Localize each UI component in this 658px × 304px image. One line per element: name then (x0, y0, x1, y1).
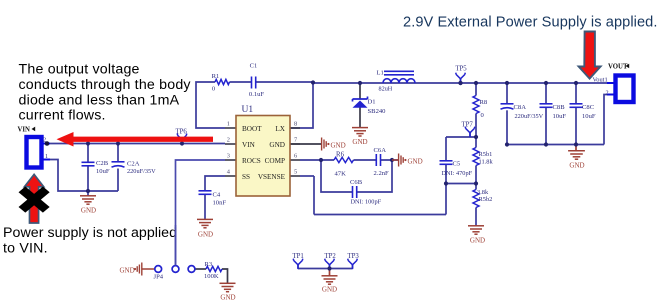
svg-text:COMP: COMP (265, 157, 285, 165)
wire test point rail (298, 268, 353, 270)
svg-text:GND: GND (470, 237, 485, 245)
wire C2B gnd stem (87, 191, 89, 196)
node C6A right (390, 158, 394, 162)
wire VIN rail (47, 143, 225, 145)
wire D1 anode stem (359, 83, 361, 99)
wire ROCS vertical overlay (175, 225, 177, 265)
wire U1 left pin stub y176 (225, 175, 236, 177)
svg-text:GND: GND (120, 267, 135, 275)
wire TP7 node to R5b1 (475, 137, 477, 148)
wire C8A to bottom rail (506, 110, 508, 144)
svg-text:10uF: 10uF (582, 113, 596, 120)
wire mid node to R5b2 (475, 184, 477, 190)
svg-text:R5b1: R5b1 (479, 151, 493, 158)
resistor R5b2 (473, 190, 479, 208)
capacitor C8A (501, 103, 514, 105)
node divider mid (474, 181, 478, 185)
svg-text:TP5: TP5 (455, 66, 467, 73)
svg-text:C8A: C8A (514, 104, 527, 111)
svg-text:diode and less than 1mA: diode and less than 1mA (19, 92, 180, 108)
wire C5 bottom / feedback riser (445, 165, 447, 215)
svg-text:GND: GND (269, 141, 285, 149)
wire U1 left pin stub y144 (225, 143, 236, 145)
capacitor C5 (440, 160, 453, 162)
svg-text:220uF/35V: 220uF/35V (127, 168, 156, 175)
wire D1 cathode to gnd (359, 108, 361, 128)
wire C8C to bottom rail (575, 108, 577, 145)
wire LX pin8 riser (290, 82, 313, 128)
resistor R1 (215, 79, 230, 84)
wire C6B left branch (321, 160, 352, 192)
svg-text:R8: R8 (480, 99, 488, 106)
wire TP7 node rail (446, 136, 476, 138)
wire TP3 stem (352, 265, 354, 269)
svg-text:TP3: TP3 (348, 253, 360, 260)
ground R5b2 (468, 225, 484, 227)
wire R6 to C6A (354, 159, 377, 161)
resistor R5b1 (473, 148, 479, 166)
wire C8B to bottom rail (545, 108, 547, 145)
jumper JP4 pin1 (155, 266, 162, 273)
svg-text:10nF: 10nF (213, 200, 227, 207)
svg-text:conducts through the body: conducts through the body (19, 77, 192, 93)
capacitor C2B (82, 161, 95, 163)
svg-text:TP7: TP7 (462, 122, 474, 129)
svg-text:GND: GND (331, 142, 346, 150)
svg-text:LX: LX (275, 125, 285, 133)
svg-text:3.8k: 3.8k (477, 189, 489, 196)
wire BOOT pin1 to R1 (196, 82, 225, 128)
svg-text:2: 2 (606, 90, 609, 97)
svg-text:C2A: C2A (127, 160, 140, 167)
resistor R3 (206, 266, 222, 271)
wire C2B top stem (87, 144, 89, 163)
wire VIN pin2 stub (44, 143, 51, 145)
diode D1 SB240 (358, 81, 362, 85)
svg-text:SS: SS (242, 173, 250, 181)
svg-text:1: 1 (227, 121, 230, 128)
node gnd rail (86, 189, 90, 193)
svg-text:2.9V External Power Supply is: 2.9V External Power Supply is applied. (403, 15, 658, 31)
port marker VIN (32, 127, 36, 132)
svg-text:JP4: JP4 (154, 274, 164, 281)
svg-text:current flows.: current flows. (19, 108, 106, 124)
wire TP6 stem (181, 140, 183, 144)
capacitor C2A (112, 161, 125, 163)
svg-text:C6B: C6B (350, 179, 363, 186)
wire R5b2 to gnd (475, 208, 477, 226)
wire mid divider rail (446, 183, 476, 185)
wire ROCS to JP4 (176, 160, 226, 265)
wire R3 to gnd (222, 269, 228, 283)
wire C6A to gnd bar (381, 159, 398, 161)
wire TP7 stem (469, 133, 471, 137)
wire C1 to LX node (256, 81, 313, 83)
wire TP2 gnd stem (329, 269, 331, 276)
wire VSENSE to riser (300, 175, 314, 177)
node top rail junctions (458, 81, 462, 85)
svg-text:BOOT: BOOT (242, 125, 262, 133)
capacitor C8C (570, 103, 583, 105)
wire U1 left pin stub y160 (225, 159, 236, 161)
wire VSENSE riser (313, 176, 315, 215)
wire output gnd rail (507, 144, 604, 146)
port marker VOUT (626, 64, 630, 69)
capacitor C6A (375, 154, 377, 166)
ground R3 (220, 282, 236, 284)
svg-text:ROCS: ROCS (242, 157, 261, 165)
connector VOUT (616, 76, 634, 103)
ground C4 (197, 218, 213, 220)
svg-text:C6A: C6A (374, 147, 387, 154)
wire JP4 pin3 to R3 (195, 268, 206, 270)
svg-text:C8C: C8C (582, 104, 595, 111)
wire R8 to TP7 node (475, 114, 477, 138)
wire C2B bottom stem (87, 166, 89, 191)
wire top rail to C8B (545, 83, 547, 104)
svg-text:VIN: VIN (18, 127, 31, 134)
svg-text:TP2: TP2 (325, 253, 337, 260)
ground TP2 (322, 275, 338, 277)
svg-text:SB240: SB240 (368, 108, 387, 115)
ground D1 (352, 127, 368, 129)
svg-text:VOUT: VOUT (608, 64, 628, 71)
wire U1 right pin stub y144 (290, 143, 300, 145)
ground GND pin7 bar (321, 138, 323, 151)
wire U1 right pin stub y176 (290, 175, 300, 177)
svg-text:GND: GND (198, 231, 213, 239)
connector VIN (P?) (27, 137, 42, 168)
svg-text:DNI: 100pF: DNI: 100pF (351, 199, 382, 206)
svg-text:Vout1: Vout1 (593, 77, 608, 84)
svg-text:10uF: 10uF (553, 113, 567, 120)
svg-text:220uF/35V: 220uF/35V (515, 113, 544, 120)
wire feedback bottom rail (314, 214, 446, 216)
test point TP5 (456, 73, 466, 79)
wire VOUT pin2 stub (607, 94, 614, 96)
svg-text:2: 2 (43, 137, 46, 144)
svg-text:6: 6 (294, 153, 297, 160)
wire C4 to gnd (204, 195, 206, 220)
svg-text:R6: R6 (336, 152, 345, 159)
svg-text:8: 8 (294, 121, 297, 128)
wire GND pin7 lead (290, 143, 321, 145)
capacitor C8B (540, 103, 553, 105)
annotation: red arrow up with X (VIN) (24, 174, 43, 223)
wire top rail to C8C (575, 83, 577, 104)
wire SS to C4 (205, 176, 225, 190)
ground C8C (568, 150, 585, 152)
ground C2 (80, 195, 96, 197)
svg-text:GND: GND (220, 294, 235, 302)
wire VIN pin1 to C2 gnd rail (44, 160, 119, 192)
svg-text:R1: R1 (212, 73, 220, 80)
svg-text:C2B: C2B (96, 160, 109, 167)
inductor L1 (383, 79, 415, 83)
wire gnd bar to JP4 pin1 (143, 268, 155, 270)
svg-text:GND: GND (569, 162, 584, 170)
node C2A top (116, 141, 120, 145)
capacitor C1 (251, 77, 253, 89)
svg-text:C4: C4 (213, 192, 221, 199)
wire U1 left pin stub y128 (225, 127, 236, 129)
svg-text:3: 3 (227, 153, 230, 160)
svg-text:C8B: C8B (553, 104, 566, 111)
svg-text:C5: C5 (453, 160, 461, 167)
ground COMP bar (392, 159, 398, 161)
svg-text:GND: GND (352, 138, 367, 146)
wire U1 right pin stub y128 (290, 127, 300, 129)
jumper JP4 pin2 (172, 266, 179, 273)
wire R5b1 to mid node (475, 166, 477, 184)
test point TP3 (348, 259, 358, 265)
svg-text:Power supply is not applied: Power supply is not applied (3, 225, 177, 241)
svg-text:GND: GND (322, 286, 337, 294)
svg-text:100K: 100K (204, 273, 219, 280)
svg-text:47K: 47K (335, 170, 347, 177)
svg-text:GND: GND (81, 207, 96, 215)
wire C2A bottom stem (117, 169, 119, 192)
wire R1 to C1 (230, 81, 252, 83)
node LX junction (311, 80, 315, 84)
svg-text:1: 1 (45, 153, 48, 160)
svg-text:The output voltage: The output voltage (19, 62, 140, 78)
test point TP6 (177, 134, 187, 140)
svg-text:U1: U1 (242, 105, 254, 115)
test point TP1 (293, 259, 303, 265)
wire U1 right pin stub y160 (290, 159, 300, 161)
node C2B top (86, 141, 90, 145)
svg-text:L1: L1 (377, 70, 384, 77)
svg-text:10uF: 10uF (96, 168, 110, 175)
wire COMP to R6 (300, 159, 334, 161)
svg-text:DNI: 470pF: DNI: 470pF (442, 170, 473, 177)
annotation: black X over arrow (19, 187, 50, 213)
svg-text:TP6: TP6 (176, 129, 188, 136)
test point TP7 (465, 127, 475, 133)
svg-text:GND: GND (408, 158, 423, 166)
ground JP4 bar (141, 263, 143, 276)
node VIN stub (45, 141, 50, 146)
wire TP1 stem (297, 265, 299, 269)
jumper JP4 pin3 (188, 266, 195, 273)
svg-text:5: 5 (294, 169, 297, 176)
node COMP junction (319, 158, 323, 162)
resistor R8 (473, 96, 479, 114)
svg-text:TP1: TP1 (293, 253, 304, 260)
svg-text:VIN: VIN (242, 141, 256, 149)
svg-text:0.1uF: 0.1uF (249, 91, 265, 98)
capacitor C4 (199, 190, 212, 192)
svg-text:82uH: 82uH (379, 86, 393, 93)
wire LX rail to VOUT (313, 82, 607, 84)
svg-text:2.2nF: 2.2nF (374, 170, 390, 177)
wire VOUT pin2 riser (604, 95, 614, 145)
node bottom rail junctions (505, 142, 509, 146)
annotation: red arrow down (to Vout) (579, 32, 601, 79)
wire top rail to R8 (475, 83, 477, 96)
svg-text:D1: D1 (368, 99, 376, 106)
capacitor C6B (352, 186, 354, 198)
wire C6B right branch (357, 160, 392, 192)
svg-text:11.8k: 11.8k (479, 159, 494, 166)
svg-text:R3: R3 (205, 261, 213, 268)
annotation: red arrow left (body diode) (57, 132, 214, 147)
svg-text:to VIN.: to VIN. (3, 240, 48, 256)
wire TP2 stem (329, 265, 331, 269)
svg-text:R5b2: R5b2 (479, 196, 493, 203)
wire TP5 stem (460, 79, 462, 83)
resistor R6 (334, 157, 353, 162)
svg-text:2: 2 (227, 137, 230, 144)
wire top rail to C8A (506, 83, 508, 104)
wire VOUT pin1 stub (607, 82, 614, 84)
svg-text:VSENSE: VSENSE (258, 173, 286, 181)
wire VIN pin1 stub (44, 159, 51, 161)
wire C2A top stem (117, 144, 119, 162)
wire C5 top stem (445, 137, 447, 161)
svg-text:C1: C1 (250, 63, 258, 70)
test point TP2 (325, 259, 335, 265)
wire gnd stem C8C (575, 145, 577, 151)
IC U1 body (236, 116, 290, 197)
